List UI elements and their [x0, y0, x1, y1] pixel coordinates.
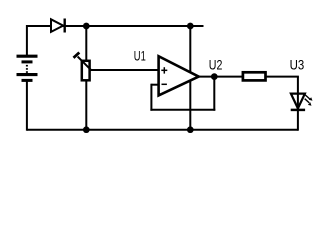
battery short plate 2	[22, 60, 33, 63]
battery dotted cells line	[26, 65, 28, 73]
wire battery top lead	[26, 25, 28, 55]
LED emission arrow 2	[305, 99, 312, 106]
diode D1	[51, 19, 65, 33]
wire resistor to LED corner	[267, 76, 299, 78]
wire bottom rail	[27, 129, 298, 131]
wire opamp output	[197, 76, 243, 78]
svg-text:U2: U2	[209, 57, 223, 72]
wire top rail	[27, 25, 204, 27]
op-amp + input symbol	[161, 67, 167, 73]
svg-text:U3: U3	[290, 57, 305, 72]
wire feedback right riser	[213, 77, 215, 111]
op-amp - input symbol	[162, 83, 167, 85]
node junction dot top pot	[83, 23, 90, 30]
wire potentiometer branch vertical	[85, 26, 87, 130]
node junction dot bottom pot	[83, 126, 90, 133]
battery long plate 3	[17, 73, 38, 76]
svg-text:U1: U1	[134, 48, 146, 63]
wire feedback bottom	[150, 109, 215, 111]
potentiometer R1 body	[82, 61, 90, 81]
LED cathode bar	[291, 109, 305, 112]
node junction dot bottom opamp V-	[187, 126, 194, 133]
battery short plate 4	[22, 79, 33, 82]
wire battery bottom lead	[26, 81, 28, 131]
potentiometer arrow head bar	[74, 53, 80, 58]
LED emission arrow 1	[304, 94, 312, 101]
diode cathode bar	[63, 19, 65, 33]
wire wiper to opamp + input	[90, 69, 159, 71]
potentiometer arrow diagonal	[78, 57, 92, 71]
wire opamp V- pin	[189, 77, 191, 130]
wire feedback - input stub	[151, 84, 159, 86]
wire LED branch vertical	[297, 77, 299, 131]
battery B1	[17, 56, 38, 80]
battery long plate 1	[17, 55, 38, 58]
node junction dot output/feedback	[211, 73, 218, 80]
wire feedback left vertical	[150, 84, 152, 111]
node junction dot top opamp V+	[187, 23, 194, 30]
resistor U2 body	[243, 72, 266, 80]
wire opamp V+ pin	[189, 26, 191, 75]
op-amp U1 triangle	[159, 56, 199, 95]
LED U3 triangle	[291, 94, 305, 109]
